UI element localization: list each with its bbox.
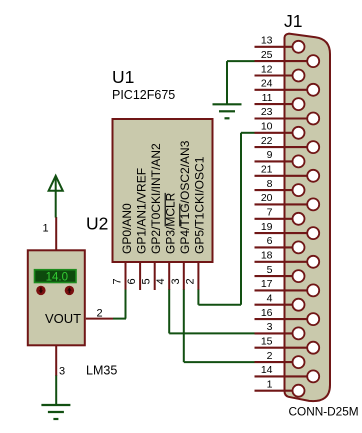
- svg-text:9: 9: [267, 149, 273, 161]
- svg-text:6: 6: [126, 278, 138, 284]
- svg-text:24: 24: [261, 78, 273, 90]
- svg-text:1: 1: [43, 223, 49, 235]
- svg-text:17: 17: [261, 278, 273, 290]
- svg-text:2: 2: [267, 350, 273, 362]
- svg-text:19: 19: [261, 221, 273, 233]
- svg-text:2: 2: [184, 278, 196, 284]
- svg-text:J1: J1: [284, 11, 302, 31]
- svg-text:7: 7: [267, 207, 273, 219]
- svg-text:6: 6: [267, 235, 273, 247]
- svg-text:U2: U2: [86, 214, 108, 234]
- svg-text:15: 15: [261, 336, 273, 348]
- svg-text:11: 11: [262, 92, 273, 104]
- svg-text:U1: U1: [112, 67, 134, 87]
- svg-text:5: 5: [267, 264, 273, 276]
- svg-text:3: 3: [267, 321, 273, 333]
- svg-text:3: 3: [170, 278, 182, 284]
- svg-text:GP5/T1CKI/OSC1: GP5/T1CKI/OSC1: [193, 156, 207, 254]
- svg-text:10: 10: [261, 121, 273, 133]
- svg-text:22: 22: [261, 135, 273, 147]
- svg-text:18: 18: [261, 250, 273, 262]
- svg-text:3: 3: [59, 366, 65, 378]
- svg-text:VOUT: VOUT: [45, 311, 81, 326]
- svg-text:7: 7: [112, 278, 124, 284]
- svg-text:4: 4: [267, 293, 273, 305]
- svg-text:8: 8: [267, 178, 273, 190]
- svg-text:5: 5: [141, 278, 153, 284]
- svg-text:12: 12: [261, 63, 273, 75]
- svg-text:GP1/AN1/VREF: GP1/AN1/VREF: [134, 168, 148, 254]
- svg-text:GP2/T0CKI/INT/AN2: GP2/T0CKI/INT/AN2: [149, 143, 163, 254]
- svg-text:2: 2: [97, 308, 103, 320]
- svg-text:CONN-D25M: CONN-D25M: [289, 405, 359, 419]
- svg-text:1: 1: [267, 379, 273, 391]
- svg-text:14: 14: [261, 364, 273, 376]
- svg-text:LM35: LM35: [86, 364, 117, 378]
- svg-text:16: 16: [261, 307, 273, 319]
- svg-text:PIC12F675: PIC12F675: [112, 88, 175, 102]
- svg-text:GP0/AN0: GP0/AN0: [120, 203, 134, 254]
- svg-text:GP4/T1G/OSC2/AN3: GP4/T1G/OSC2/AN3: [178, 140, 192, 254]
- svg-text:20: 20: [261, 192, 273, 204]
- svg-text:14.0: 14.0: [46, 272, 68, 284]
- svg-text:4: 4: [155, 278, 167, 284]
- svg-text:21: 21: [261, 164, 273, 176]
- svg-text:13: 13: [261, 35, 273, 47]
- svg-text:23: 23: [261, 106, 273, 118]
- svg-text:25: 25: [261, 49, 273, 61]
